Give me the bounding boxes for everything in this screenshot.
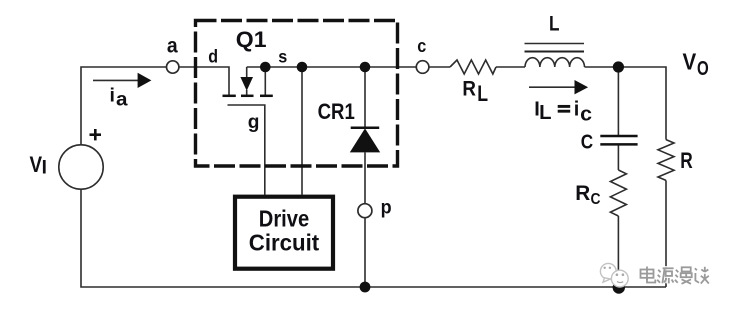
svg-text:I: I [42, 158, 47, 179]
svg-text:V: V [30, 152, 43, 177]
svg-text:C: C [591, 191, 601, 208]
svg-text:V: V [683, 49, 697, 75]
svg-text:Drive: Drive [259, 205, 309, 231]
svg-text:i: i [574, 99, 580, 121]
svg-text:L: L [477, 81, 488, 106]
svg-text:p: p [381, 198, 392, 219]
svg-text:CR1: CR1 [318, 99, 355, 124]
svg-text:L: L [539, 102, 551, 124]
svg-text:R: R [575, 182, 590, 205]
svg-text:Circuit: Circuit [249, 229, 320, 255]
svg-text:C: C [581, 132, 593, 154]
svg-text:g: g [248, 111, 260, 133]
svg-text:O: O [697, 58, 709, 80]
svg-text:i: i [110, 84, 115, 106]
svg-text:c: c [417, 35, 426, 56]
svg-text:a: a [167, 34, 179, 58]
svg-text:R: R [680, 148, 693, 173]
svg-text:d: d [208, 46, 218, 67]
svg-text:c: c [580, 102, 592, 125]
svg-text:s: s [278, 47, 287, 67]
svg-text:a: a [116, 89, 128, 110]
svg-text:L: L [549, 12, 560, 36]
svg-text:Q1: Q1 [236, 27, 267, 52]
svg-text:R: R [462, 77, 476, 101]
